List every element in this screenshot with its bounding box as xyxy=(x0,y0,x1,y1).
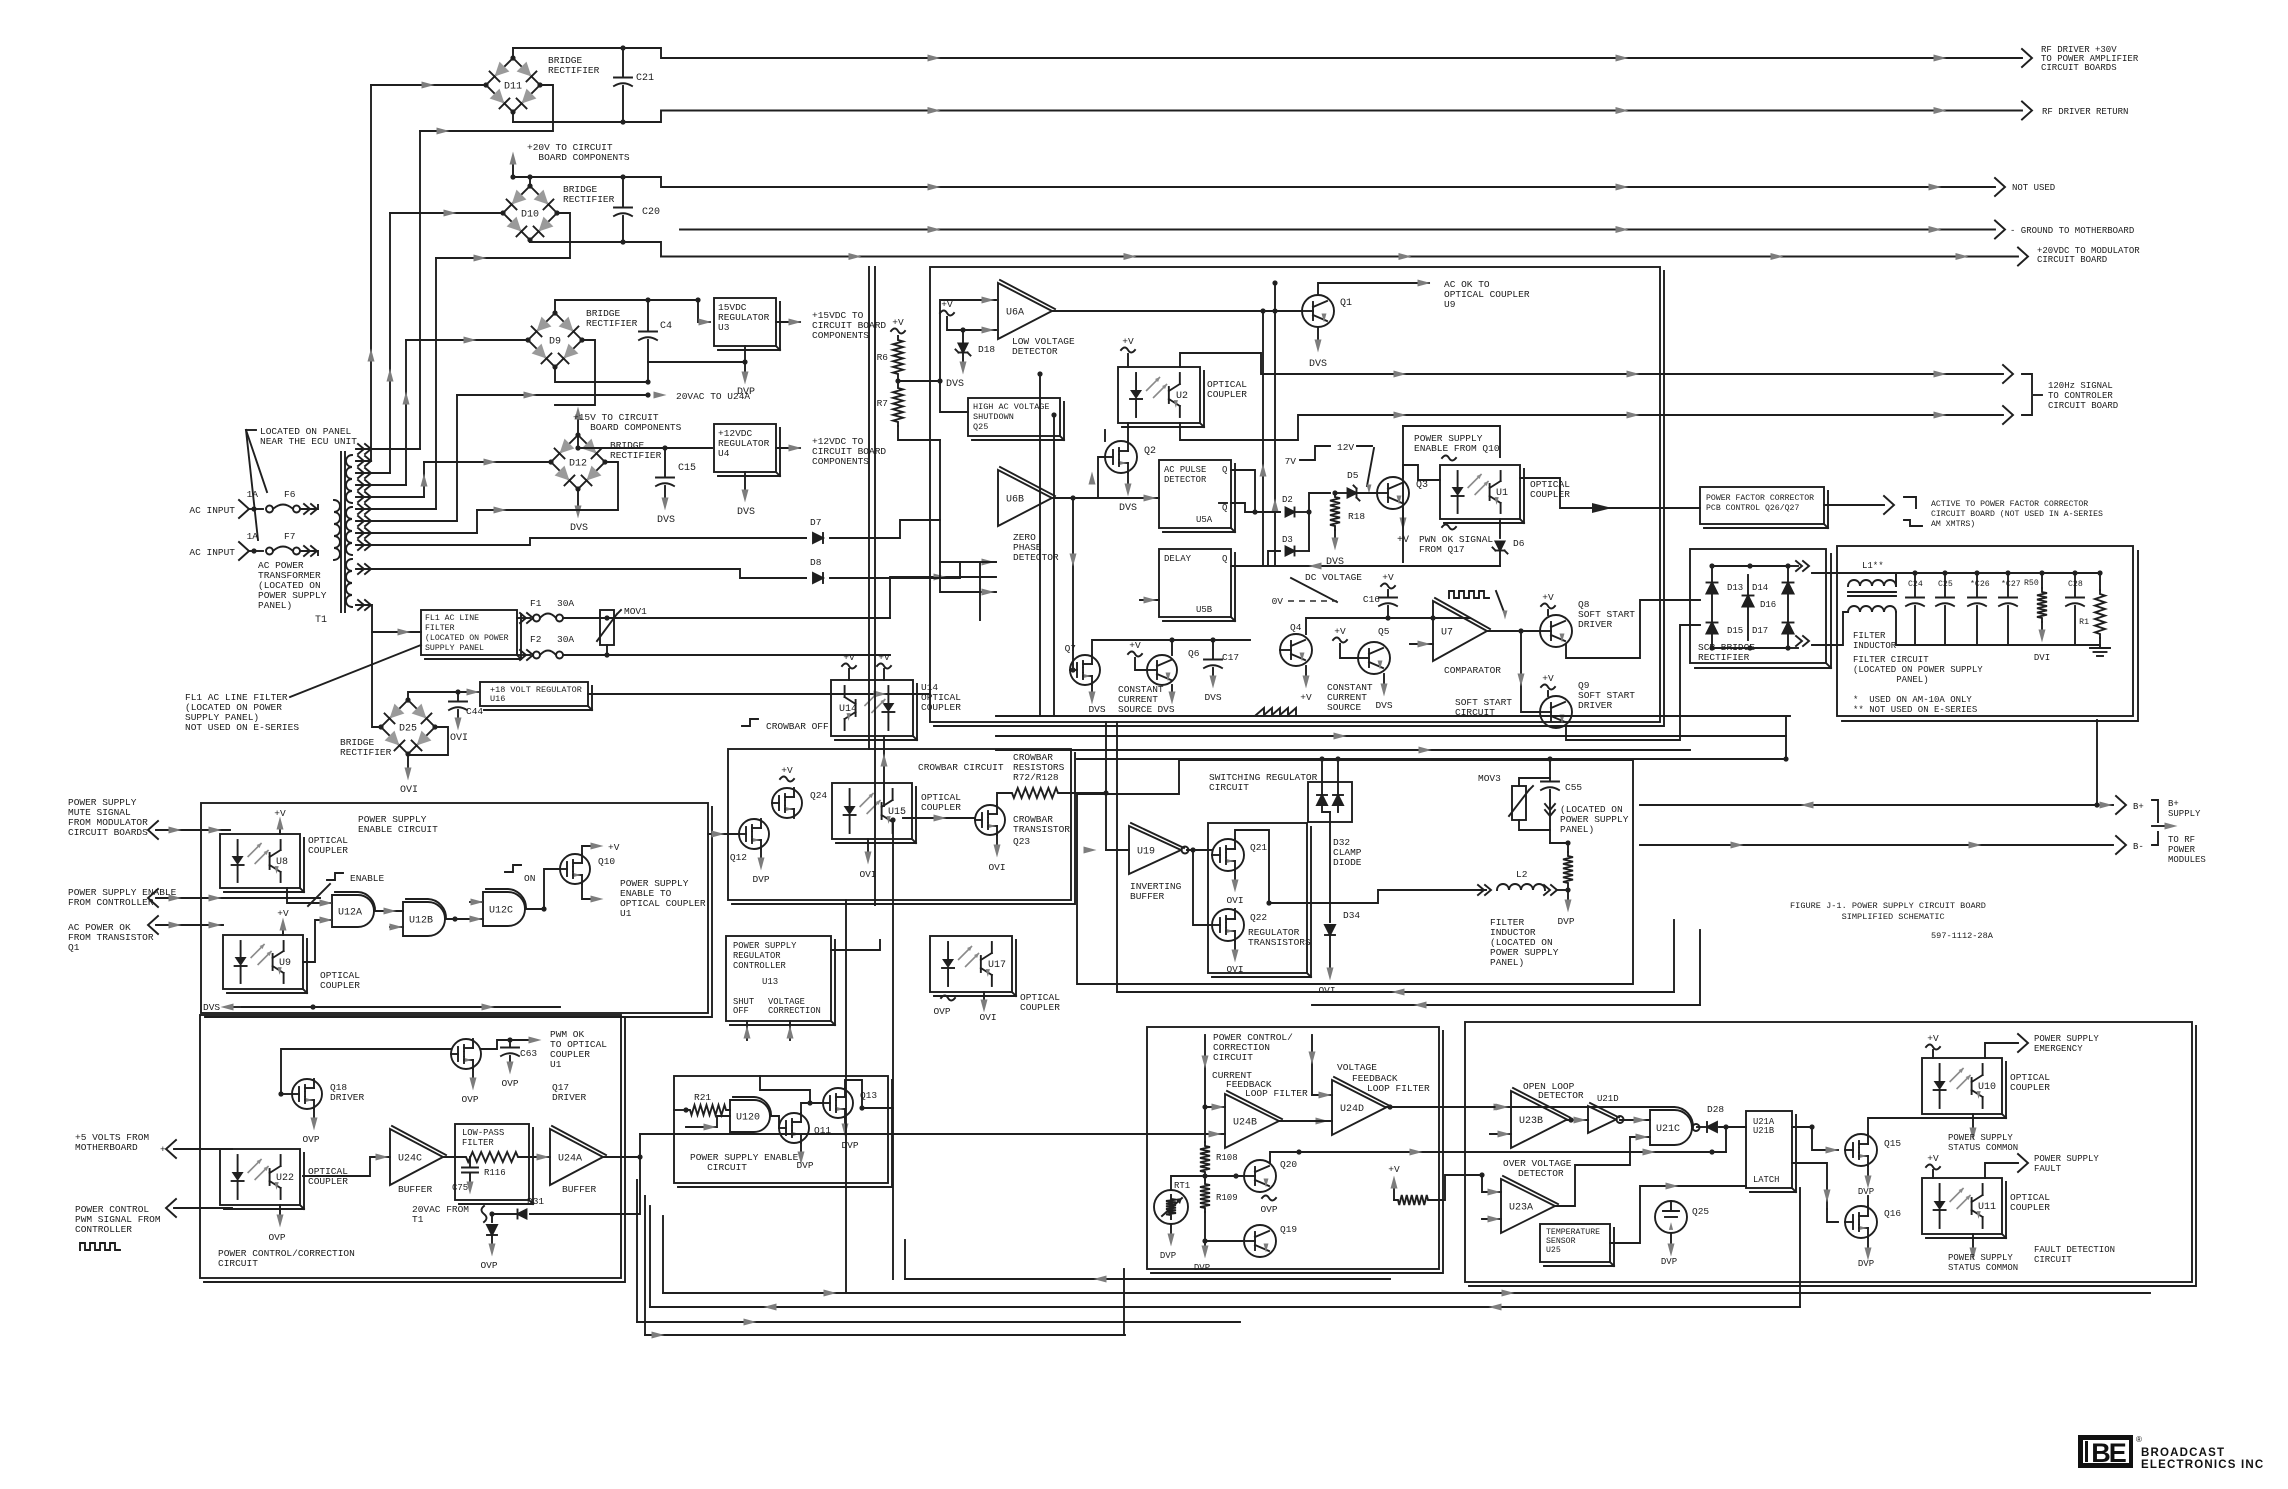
wire feeder to D11 xyxy=(370,85,372,461)
svg-text:OVI: OVI xyxy=(400,785,418,796)
svg-text:120Hz SIGNAL: 120Hz SIGNAL xyxy=(2048,381,2113,391)
wire U120 to Q11 xyxy=(772,1116,779,1128)
voltage regulator U4 xyxy=(665,447,712,449)
bracket PFC label xyxy=(1904,497,1916,508)
svg-text:+V: +V xyxy=(1388,1164,1400,1175)
wire U24B upper input xyxy=(1202,1104,1207,1109)
inductor L1 xyxy=(1848,580,1896,586)
node DVS under Q1 xyxy=(1317,327,1319,340)
SCR D14 xyxy=(1783,583,1794,594)
svg-text:DVP: DVP xyxy=(1858,1187,1874,1197)
arrow to RF modules xyxy=(2152,825,2166,827)
svg-text:U1: U1 xyxy=(550,1059,562,1070)
svg-text:+V: +V xyxy=(1927,1153,1939,1164)
thermistor RT1 xyxy=(1154,1190,1188,1224)
MOSFET Q24 xyxy=(772,788,802,818)
capacitor C27 xyxy=(2005,570,2010,575)
svg-text:+V: +V xyxy=(941,299,953,310)
wire Q8 emitter out xyxy=(1566,600,1700,658)
svg-text:SHUTDOWN: SHUTDOWN xyxy=(973,412,1014,422)
transistor Q1 xyxy=(1302,295,1334,327)
buffer U24C xyxy=(390,1129,443,1185)
crowbar resistors zigzag xyxy=(1008,788,1062,798)
NAND gate U21C xyxy=(1650,1110,1692,1145)
wire U6A output to Q1 base xyxy=(1052,310,1302,312)
svg-text:D5: D5 xyxy=(1347,470,1359,481)
svg-text:U3: U3 xyxy=(718,322,730,333)
varistor MOV1 xyxy=(600,610,614,645)
wire D32 common xyxy=(1322,805,1330,812)
svg-text:RF DRIVER RETURN: RF DRIVER RETURN xyxy=(2042,107,2128,117)
wire Q15 drain to U10 xyxy=(1868,1118,1940,1134)
svg-text:D2: D2 xyxy=(1282,495,1293,505)
+18 volt regulator U16 xyxy=(458,691,478,693)
svg-text:U19: U19 xyxy=(1137,847,1155,858)
wire D32a up xyxy=(1321,759,1323,795)
wire divider tap xyxy=(898,380,940,382)
diode D2 xyxy=(1286,508,1295,517)
svg-text:DVP: DVP xyxy=(752,874,769,885)
wire tap down to Q25 box xyxy=(940,381,968,412)
svg-text:D9: D9 xyxy=(549,337,561,348)
svg-text:20VAC TO U24A: 20VAC TO U24A xyxy=(676,391,750,402)
MOSFET Q12 crowbar xyxy=(739,819,769,849)
svg-text:RECTIFIER: RECTIFIER xyxy=(340,747,392,758)
bridge rectifier D10 xyxy=(503,186,557,240)
op-amp U23A over voltage detector xyxy=(1501,1179,1555,1233)
svg-text:DETECTOR: DETECTOR xyxy=(1518,1168,1564,1179)
wire D2/D3 junction up xyxy=(1309,493,1330,551)
svg-text:B+: B+ xyxy=(2168,799,2179,809)
svg-text:0V: 0V xyxy=(1272,596,1284,607)
svg-text:U2: U2 xyxy=(1176,391,1188,402)
wire U4 output xyxy=(776,447,800,449)
svg-text:CIRCUIT: CIRCUIT xyxy=(2034,1255,2072,1265)
svg-text:RECTIFIER: RECTIFIER xyxy=(563,194,615,205)
wire U14 LED down to crowbar xyxy=(883,736,885,806)
optical coupler U17 xyxy=(930,936,1012,992)
svg-text:U5B: U5B xyxy=(1196,605,1213,615)
svg-text:SUPPLY PANEL: SUPPLY PANEL xyxy=(425,644,484,653)
wire U13 voltage correction down xyxy=(789,1021,791,1040)
svg-text:U11: U11 xyxy=(1978,1202,1996,1213)
svg-text:MOV1: MOV1 xyxy=(624,606,647,617)
transformer T1 secondary xyxy=(346,455,352,503)
wire U5A Q output xyxy=(1231,470,1280,512)
wire Q1 collector to AC OK xyxy=(1318,283,1429,295)
wire 120Hz signal lower xyxy=(1180,415,2003,440)
wire pwn ok bus xyxy=(1263,565,1500,567)
wire D10 top corner xyxy=(529,177,531,186)
svg-text:Q: Q xyxy=(1222,503,1227,513)
filter FL1 AC line filter box xyxy=(421,610,517,655)
wire enable to crowbar Q12 xyxy=(708,833,739,835)
comparator U7 xyxy=(1433,601,1487,661)
wire Q21/Q22 drains up xyxy=(1235,830,1269,903)
wire F1 line right xyxy=(607,617,890,619)
svg-text:F1: F1 xyxy=(530,598,542,609)
svg-text:U23B: U23B xyxy=(1519,1116,1543,1127)
wire feeder to D12 xyxy=(423,462,425,497)
svg-text:COUPLER: COUPLER xyxy=(2010,1082,2050,1093)
node OVI under U17 xyxy=(983,992,985,1000)
MOSFET Q18 driver xyxy=(292,1079,322,1109)
svg-text:30A: 30A xyxy=(557,634,574,645)
wire mute input xyxy=(156,829,230,831)
wire U120 lower input xyxy=(686,1116,730,1127)
svg-text:U9: U9 xyxy=(1444,299,1456,310)
svg-text:OVI: OVI xyxy=(979,1012,996,1023)
svg-text:DVP: DVP xyxy=(841,1140,858,1151)
svg-text:DIODE: DIODE xyxy=(1333,857,1362,868)
label enable step xyxy=(327,873,343,880)
svg-text:R6: R6 xyxy=(877,352,889,363)
transistor Q5 constant current source xyxy=(1358,642,1390,674)
node RF driver +30V output xyxy=(2022,49,2032,67)
node +20V to circuit board components xyxy=(513,176,530,178)
svg-text:D25: D25 xyxy=(399,724,417,735)
box power control correction right xyxy=(1147,1027,1439,1269)
inverter U21D xyxy=(1588,1106,1616,1133)
block SCR bridge rectifier xyxy=(1690,549,1826,663)
node not used output xyxy=(1995,178,2005,196)
inverting buffer U19 xyxy=(1129,826,1181,874)
wire D12 bottom corner xyxy=(577,489,579,505)
wire D28 junction down xyxy=(1725,1127,1727,1152)
AND gate U12C xyxy=(483,892,525,926)
capacitor C75 xyxy=(469,1157,471,1166)
wire Q18 gate feed xyxy=(281,1093,292,1095)
svg-text:DRIVER: DRIVER xyxy=(552,1092,587,1103)
block delay U5B xyxy=(1159,549,1231,617)
wire U5A Qbar output to D2 xyxy=(1231,503,1280,512)
svg-text:OPTICAL COUPLER: OPTICAL COUPLER xyxy=(1444,289,1530,300)
svg-text:+V: +V xyxy=(1927,1033,1939,1044)
wire into D12 AC input xyxy=(424,461,551,463)
node DVP under Q11 xyxy=(800,1143,802,1152)
svg-text:D18: D18 xyxy=(978,344,995,355)
svg-text:ENABLE FROM Q10: ENABLE FROM Q10 xyxy=(1414,443,1500,454)
resistor R7 xyxy=(893,384,903,426)
wire U5B Q output to D3 xyxy=(1231,551,1280,566)
svg-text:DVS: DVS xyxy=(737,507,755,518)
wire U1 output to power factor corrector xyxy=(1520,478,1700,508)
svg-text:BUFFER: BUFFER xyxy=(562,1184,597,1195)
wire below switching box 2 xyxy=(1312,1004,1700,1006)
wire U22 to U24C xyxy=(303,1157,390,1176)
svg-text:D14: D14 xyxy=(1752,583,1768,593)
node +V under Q4 xyxy=(1305,666,1307,676)
svg-text:OVP: OVP xyxy=(480,1260,497,1271)
svg-text:OVP: OVP xyxy=(302,1134,319,1145)
node 120Hz upper output xyxy=(2003,365,2013,383)
wire into D10 AC input xyxy=(390,212,503,214)
wire long return under main box xyxy=(996,715,1790,717)
node DVS under Q2 xyxy=(1127,473,1129,484)
wire Q7 gate stub xyxy=(1070,669,1073,671)
svg-text:R21: R21 xyxy=(694,1092,711,1103)
svg-text:AC INPUT: AC INPUT xyxy=(189,505,235,516)
svg-text:TRANSISTOR: TRANSISTOR xyxy=(1013,824,1070,835)
svg-text:B+: B+ xyxy=(2133,802,2144,812)
wire filter to U24A xyxy=(522,1156,550,1158)
wire SCR out top xyxy=(1788,565,1798,567)
MOSFET Q15 xyxy=(1845,1134,1877,1166)
capacitor C55 xyxy=(1549,759,1551,780)
MOSFET Q16 xyxy=(1845,1206,1877,1238)
optical coupler U2 xyxy=(1118,367,1200,423)
svg-text:D16: D16 xyxy=(1760,600,1776,610)
optical coupler U15 xyxy=(832,783,912,839)
vertical gray feed to U24D xyxy=(1311,1035,1313,1095)
optical coupler U8 xyxy=(220,834,300,888)
diode D28 xyxy=(1707,1122,1717,1132)
svg-text:Q2: Q2 xyxy=(1144,446,1156,457)
svg-text:DVP: DVP xyxy=(1194,1263,1210,1273)
wire RF driver +30V bus xyxy=(513,48,2022,58)
wire U15 to Q23 gate xyxy=(903,817,975,819)
svg-text:PANEL): PANEL) xyxy=(1490,957,1524,968)
svg-text:TO CONTROLER: TO CONTROLER xyxy=(2048,391,2113,401)
wire not-used bus xyxy=(530,177,1995,187)
svg-text:PCB CONTROL Q26/Q27: PCB CONTROL Q26/Q27 xyxy=(1706,503,1799,513)
svg-text:RECTIFIER: RECTIFIER xyxy=(548,65,600,76)
block high AC voltage shutdown Q25 xyxy=(968,398,1060,436)
svg-text:U1: U1 xyxy=(1496,488,1508,499)
svg-text:INDUCTOR: INDUCTOR xyxy=(1853,641,1897,651)
svg-text:FILTER: FILTER xyxy=(462,1138,494,1148)
wire into D11 AC input xyxy=(371,84,486,86)
node DVP under RT1 xyxy=(1170,1224,1172,1234)
svg-text:Q25: Q25 xyxy=(973,422,988,432)
svg-text:C55: C55 xyxy=(1565,782,1582,793)
clamp diode D32 box xyxy=(1308,782,1352,822)
wire U7 output xyxy=(1487,630,1540,632)
svg-text:FILTER CIRCUIT: FILTER CIRCUIT xyxy=(1853,655,1929,665)
wire tap to FL1 xyxy=(356,605,421,632)
svg-text:C4: C4 xyxy=(660,321,672,332)
resistor R116 xyxy=(462,1152,522,1162)
svg-text:U21B: U21B xyxy=(1753,1126,1774,1136)
wire tap to D7 xyxy=(356,538,806,545)
svg-text:Q16: Q16 xyxy=(1884,1208,1901,1219)
wire tap to U6A input xyxy=(940,300,996,381)
wire RF driver return bus xyxy=(513,111,2022,123)
wire D9 AC return xyxy=(555,340,595,405)
svg-text:DC VOLTAGE: DC VOLTAGE xyxy=(1305,572,1362,583)
wire D9 negative bus xyxy=(555,367,648,382)
wire Q2 drain stub xyxy=(1104,430,1106,441)
svg-text:DVS: DVS xyxy=(1088,704,1105,715)
wire feeder to D10 xyxy=(389,213,391,473)
wire U19 output to gates xyxy=(1187,849,1212,851)
node OVI under Q21 xyxy=(1234,871,1236,880)
SCR D17 xyxy=(1783,623,1794,634)
wire transformer taps xyxy=(356,460,371,462)
svg-text:+V: +V xyxy=(1382,572,1394,583)
chevrons below C55 xyxy=(1545,804,1555,810)
svg-text:FAULT DETECTION: FAULT DETECTION xyxy=(2034,1245,2115,1255)
resistor above DVP xyxy=(1567,843,1569,852)
bridge rectifier D25 xyxy=(381,700,435,754)
svg-text:D13: D13 xyxy=(1727,583,1743,593)
wire below main box 2 xyxy=(996,735,1786,737)
capacitor C4 xyxy=(647,300,649,330)
svg-text:POWER SUPPLY: POWER SUPPLY xyxy=(1948,1253,2013,1263)
transistor Q3 xyxy=(1377,477,1409,509)
wires U8 output to U12A xyxy=(287,888,332,903)
node DVS under Q6 xyxy=(1171,685,1173,692)
svg-text:DRIVER: DRIVER xyxy=(1578,700,1613,711)
svg-text:Q6: Q6 xyxy=(1188,648,1200,659)
vertical feed to U24B xyxy=(1204,1035,1206,1107)
wire below main box 3 xyxy=(996,749,1690,751)
svg-text:U10: U10 xyxy=(1978,1082,1996,1093)
svg-text:F6: F6 xyxy=(284,489,296,500)
optical coupler U14 xyxy=(831,680,913,736)
wire Q5 base xyxy=(1340,644,1358,658)
svg-text:POWER SUPPLY: POWER SUPPLY xyxy=(2034,1034,2099,1044)
transistor Q8 soft start driver xyxy=(1540,615,1572,647)
box power supply enable circuit xyxy=(201,803,708,1013)
wire D12 AC return xyxy=(477,462,618,510)
wire D10 bottom corner xyxy=(529,240,531,242)
node active to PFC xyxy=(1884,496,1894,514)
diode D3 xyxy=(1286,547,1295,556)
optical coupler U10 xyxy=(1922,1058,2002,1114)
svg-text:+V: +V xyxy=(1334,626,1346,637)
svg-text:COUPLER: COUPLER xyxy=(308,845,348,856)
leader line to F6 xyxy=(246,430,267,492)
wire D11 bottom corner xyxy=(512,112,514,122)
svg-text:+V: +V xyxy=(1542,673,1554,684)
svg-text:CIRCUIT BOARD: CIRCUIT BOARD xyxy=(2037,255,2107,265)
node DVP under U3 xyxy=(648,346,745,362)
wire temperature sensor to latch xyxy=(1610,1186,1746,1243)
svg-text:CIRCUIT: CIRCUIT xyxy=(218,1258,258,1269)
svg-text:U24C: U24C xyxy=(398,1154,422,1165)
svg-text:TRANSISTORS: TRANSISTORS xyxy=(1248,937,1311,948)
wire U24B lower input from left xyxy=(640,1133,1225,1135)
node DVP under Q13 xyxy=(844,1118,846,1124)
svg-text:C17: C17 xyxy=(1222,652,1239,663)
label crowbar off xyxy=(742,719,758,726)
svg-text:CIRCUIT BOARDS: CIRCUIT BOARDS xyxy=(2041,63,2117,73)
svg-text:U9: U9 xyxy=(279,958,291,969)
optical coupler U11 xyxy=(1922,1178,2002,1234)
wire F1 feed to detector box xyxy=(890,577,996,618)
svg-text:DVS: DVS xyxy=(1309,359,1327,370)
wire enable input xyxy=(156,897,320,899)
capacitor C28 xyxy=(2072,570,2077,575)
wire Q9 emitter out xyxy=(1566,625,1700,740)
wire D25 return xyxy=(408,727,448,755)
wire return feeder D10 xyxy=(435,258,437,509)
wire bottom bus 2 xyxy=(663,1292,2150,1294)
wire U23B inputs xyxy=(1465,1106,1511,1108)
buffer U24A xyxy=(550,1129,603,1185)
wire U6B lower input xyxy=(980,562,996,620)
svg-text:U21C: U21C xyxy=(1656,1124,1680,1135)
node OVP under U22 xyxy=(279,1205,281,1215)
wire D32b up xyxy=(1337,759,1339,795)
wire D11 top corner xyxy=(512,48,514,58)
svg-text:U24B: U24B xyxy=(1233,1118,1257,1129)
svg-text:Q12: Q12 xyxy=(730,852,747,863)
svg-text:R72/R128: R72/R128 xyxy=(1013,772,1059,783)
svg-text:T1: T1 xyxy=(412,1214,424,1225)
svg-text:NOT USED: NOT USED xyxy=(2012,183,2055,193)
wire U6B output to U5A xyxy=(1052,497,1159,499)
wire Q11 drain to Q13 gate xyxy=(801,1103,823,1113)
wire Q18 to Q17 gate xyxy=(281,1049,451,1094)
svg-text:U8: U8 xyxy=(276,857,288,868)
svg-text:C20: C20 xyxy=(642,207,660,218)
wire U7 lower input xyxy=(1410,643,1433,645)
svg-text:SOURCE: SOURCE xyxy=(1118,704,1153,715)
transistor Q19 xyxy=(1244,1225,1276,1257)
wire B+ riser xyxy=(2096,720,2098,805)
bridge rectifier D11 xyxy=(486,58,540,112)
svg-text:+V: +V xyxy=(1129,640,1141,651)
OVP squiggle under Q20 xyxy=(1262,1196,1276,1201)
svg-text:AC INPUT: AC INPUT xyxy=(189,547,235,558)
node OVP under Q18 xyxy=(313,1109,315,1118)
svg-text:Q1: Q1 xyxy=(68,942,80,953)
wire PFC output xyxy=(1824,504,1884,506)
wire U11 output to fault xyxy=(1985,1163,2018,1178)
node B- output xyxy=(2116,836,2126,854)
svg-text:CIRCUIT BOARDS: CIRCUIT BOARDS xyxy=(68,827,148,838)
wire bottom bus enable box xyxy=(242,1006,560,1008)
vertical rails inside main box xyxy=(1039,374,1041,716)
svg-text:+V: +V xyxy=(1300,692,1312,703)
svg-text:FROM CONTROLLER: FROM CONTROLLER xyxy=(68,897,154,908)
svg-text:R7: R7 xyxy=(877,398,888,409)
wire to U6A minus input xyxy=(963,329,996,331)
wire U23A output xyxy=(1555,1137,1630,1206)
svg-text:U6B: U6B xyxy=(1006,495,1024,506)
svg-text:COUPLER: COUPLER xyxy=(320,980,360,991)
svg-text:LOOP FILTER: LOOP FILTER xyxy=(1245,1088,1308,1099)
capacitor C21 xyxy=(622,48,624,76)
wire tap to D8 xyxy=(356,569,806,578)
svg-text:FL1 AC LINE: FL1 AC LINE xyxy=(425,614,479,623)
svg-text:Q10: Q10 xyxy=(598,856,615,867)
wire into D9 AC input xyxy=(406,339,528,341)
wire below switching box 1 xyxy=(1117,991,1674,993)
square wave glyph PWM xyxy=(80,1243,120,1250)
resistor R108 xyxy=(1204,1107,1206,1142)
svg-text:B-: B- xyxy=(2133,842,2144,852)
square wave glyph xyxy=(1449,591,1489,598)
svg-text:U25: U25 xyxy=(1546,1246,1561,1255)
svg-text:+V: +V xyxy=(843,652,855,663)
svg-text:DVI: DVI xyxy=(2034,653,2050,663)
svg-text:DELAY: DELAY xyxy=(1164,554,1192,564)
wire D11 AC return xyxy=(420,85,553,131)
capacitor C26 xyxy=(1974,570,1979,575)
svg-text:POWER SUPPLY: POWER SUPPLY xyxy=(1948,1133,2013,1143)
MOSFET Q10 xyxy=(560,854,590,884)
svg-text:DVS: DVS xyxy=(1375,700,1392,711)
svg-text:SUPPLY: SUPPLY xyxy=(2168,809,2201,819)
fuse F6 xyxy=(266,506,273,513)
box power control/correction circuit xyxy=(200,1015,621,1278)
svg-text:+V: +V xyxy=(277,908,289,919)
box power supply enable circuit middle xyxy=(674,1076,888,1183)
svg-text:Q15: Q15 xyxy=(1884,1138,1901,1149)
